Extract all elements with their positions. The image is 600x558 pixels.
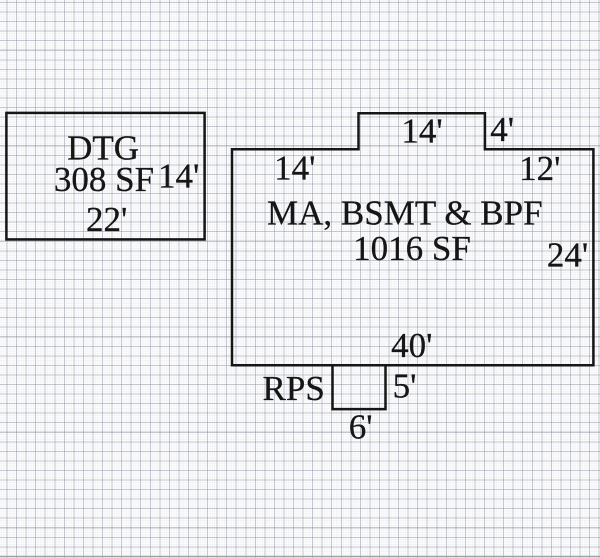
svg-text:14': 14': [274, 148, 315, 187]
svg-text:14': 14': [401, 112, 442, 151]
svg-text:4': 4': [490, 110, 514, 149]
svg-text:1016 SF: 1016 SF: [353, 229, 471, 268]
svg-text:6': 6': [349, 408, 373, 447]
svg-text:5': 5': [393, 367, 417, 406]
svg-text:308 SF: 308 SF: [54, 160, 154, 199]
svg-text:24': 24': [547, 236, 588, 275]
svg-text:22': 22': [86, 200, 127, 239]
room MA BSMT BPF outline: [232, 113, 593, 365]
bottom darker grid line: [0, 556, 600, 558]
svg-text:RPS: RPS: [263, 369, 325, 408]
porch RPS outline: [333, 365, 386, 409]
svg-text:40': 40': [391, 326, 432, 365]
svg-text:MA, BSMT & BPF: MA, BSMT & BPF: [267, 194, 543, 233]
svg-text:14': 14': [158, 157, 199, 196]
svg-text:12': 12': [519, 149, 560, 188]
room DTG outline: [6, 113, 204, 239]
